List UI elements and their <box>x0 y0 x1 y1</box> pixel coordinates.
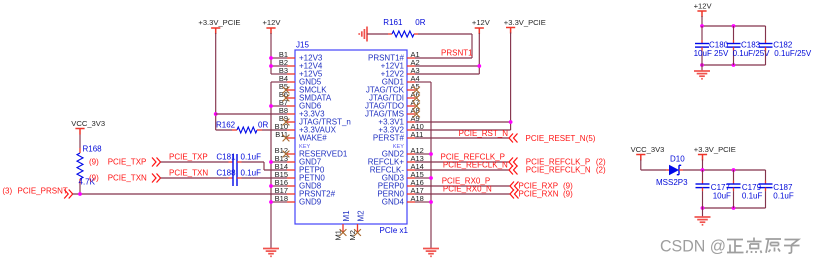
harness port (9) PCIE_TXN <box>89 174 161 183</box>
svg-text:PRSNT1: PRSNT1 <box>441 49 473 58</box>
wire A14 REFCLK- out <box>415 169 509 171</box>
resistor R168 4.7K <box>77 135 102 195</box>
svg-text:PCIe x1: PCIe x1 <box>380 226 409 235</box>
svg-text:PCIE_REFCLK_N: PCIE_REFCLK_N <box>526 166 591 175</box>
diode D10 MSS2P3 <box>656 154 688 187</box>
svg-text:PCIE_TXP: PCIE_TXP <box>108 158 147 167</box>
net label PCIE_TXP <box>169 152 208 161</box>
pin M2 <box>348 210 366 241</box>
svg-text:R168: R168 <box>83 145 103 154</box>
power port +12V (top right) <box>694 2 713 18</box>
wire +12V rail to caps <box>702 16 766 65</box>
pin B16 GND8 <box>275 178 322 191</box>
net label PRSNT1 <box>441 49 473 58</box>
pin A9 +3.3V1 <box>378 114 419 127</box>
svg-text:(2): (2) <box>596 166 606 175</box>
svg-text:0R: 0R <box>258 120 268 129</box>
svg-text:VCC_3V3: VCC_3V3 <box>71 119 105 128</box>
pin A5 JTAG/TCK <box>366 82 420 95</box>
ground (below A-side) <box>423 249 439 257</box>
svg-text:WAKE#: WAKE# <box>299 134 327 143</box>
svg-text:PCIE_TXN: PCIE_TXN <box>108 174 147 183</box>
pin A15 GND3 <box>382 170 424 183</box>
pin B15 PETN0 <box>275 170 326 183</box>
svg-text:0.1uF/25V: 0.1uF/25V <box>733 49 771 58</box>
pin B14 PETP0 <box>275 162 325 175</box>
junction GND/B16 <box>269 184 273 188</box>
svg-text:(9): (9) <box>563 190 573 199</box>
wire PCIE_PRSNT to B17 <box>73 193 287 195</box>
pin B18 GND9 <box>275 194 322 207</box>
connector J15 type label PCIe x1 <box>380 226 409 235</box>
svg-text:(9): (9) <box>89 174 99 183</box>
svg-text:C188: C188 <box>216 168 236 177</box>
pin B11 WAKE# <box>275 130 327 143</box>
pin A14 REFCLK- <box>370 162 424 175</box>
svg-text:C181: C181 <box>216 152 236 161</box>
svg-text:PCIE_TXN: PCIE_TXN <box>169 168 208 177</box>
svg-text:(3): (3) <box>2 187 12 196</box>
svg-text:0.1uF/25V: 0.1uF/25V <box>774 49 812 58</box>
pin A16 PERP0 <box>378 178 424 191</box>
svg-text:+12V: +12V <box>472 18 491 27</box>
wire +12V to A2,A3 <box>415 33 479 74</box>
svg-text:PCIE_RESET_N: PCIE_RESET_N <box>526 134 586 143</box>
power port +3.3V_PCIE (top left) <box>198 18 240 34</box>
svg-text:CSDN @: CSDN @ <box>660 237 726 256</box>
pin B4 GND5 <box>279 74 322 87</box>
svg-text:MSS2P3: MSS2P3 <box>656 178 688 187</box>
harness port (9) PCIE_TXP <box>89 158 161 167</box>
resistor R162 0R <box>216 120 287 133</box>
harness port (3) PCIE_PRSNT <box>2 187 72 199</box>
pin A4 GND1 <box>382 74 420 87</box>
harness port PCIE_RXN (9) <box>510 190 573 199</box>
junction +12V/A2 <box>477 64 481 68</box>
svg-text:KEY: KEY <box>393 144 404 150</box>
svg-text:+12V: +12V <box>263 18 282 27</box>
pin B12 RESERVED1 <box>275 146 348 159</box>
svg-text:KEY: KEY <box>299 144 310 150</box>
net label PCIE_RX0_P <box>442 176 490 185</box>
KEY row <box>299 144 404 150</box>
harness port PCIE_REFCLK_N (2) <box>509 166 606 175</box>
net label PCIE_REFCLK_N <box>443 161 508 170</box>
pin A10 +3.3V2 <box>378 122 423 135</box>
svg-text:R162: R162 <box>216 120 236 129</box>
wire A11 PERST# out <box>415 137 509 139</box>
junction +12V/B2 <box>269 64 273 68</box>
wire A16 PERP0 out <box>415 185 510 187</box>
junction GND/A12 <box>429 152 433 156</box>
no-connect X left pin row y=138 <box>283 135 290 142</box>
pin A1 PRSNT1# <box>368 50 420 63</box>
svg-text:VCC_3V3: VCC_3V3 <box>631 145 665 154</box>
power port +3.3V_PCIE (bottom right) <box>694 145 736 161</box>
connector J15 body <box>295 41 407 225</box>
watermark hanzi 正点原子 (drawn strokes) <box>727 238 800 254</box>
svg-text:0.1uF: 0.1uF <box>241 168 262 177</box>
svg-text:10uF: 10uF <box>713 192 731 201</box>
wire +3.3V_PCIE to A9,A10 <box>415 33 511 131</box>
junction rail/C179 <box>732 168 736 172</box>
watermark CSDN @ <box>660 237 726 256</box>
wire +3.3V3 to B8 <box>216 113 287 115</box>
net label PCIE_REFCLK_P <box>441 152 505 161</box>
harness port PCIE_RESET_N (5) <box>509 134 596 143</box>
svg-text:PCIE_PRSNT: PCIE_PRSNT <box>18 187 68 196</box>
svg-text:J15: J15 <box>296 41 309 50</box>
wire VCC_3V3 to D10 anode <box>641 160 666 171</box>
net label PCIE_RX0_N <box>443 184 492 193</box>
harness port PCIE_RXP (9) <box>510 182 573 191</box>
junction bottom rail C180 <box>700 63 704 67</box>
svg-text:PCIE_TXP: PCIE_TXP <box>169 152 208 161</box>
junction rail/C177 <box>701 168 705 172</box>
capacitor C181 0.1uF <box>161 152 288 170</box>
pin B13 GND7 <box>275 154 322 167</box>
svg-text:0.1uF: 0.1uF <box>742 192 763 201</box>
no-connect X right pin row y=114 <box>413 111 420 118</box>
svg-text:PERST#: PERST# <box>373 134 405 143</box>
power port +12V (top left) <box>263 18 282 34</box>
wire A13 REFCLK+ out <box>415 161 509 163</box>
junction GND/B13 <box>269 160 273 164</box>
pin A8 JTAG/TMS <box>365 106 420 119</box>
pin B10 +3.3VAUX <box>275 122 337 135</box>
svg-text:PCIE_RX0_N: PCIE_RX0_N <box>443 184 492 193</box>
junction R168/PRSNT wire <box>78 192 82 196</box>
pin A7 JTAG/TDO <box>365 98 420 111</box>
capacitor C179 0.1uF <box>727 170 763 208</box>
junction top rail C183 <box>732 24 736 28</box>
no-connect X on M2 <box>354 229 361 236</box>
svg-text:PCIE_RXN: PCIE_RXN <box>519 190 559 199</box>
svg-text:GND4: GND4 <box>382 198 405 207</box>
svg-text:+3.3V_PCIE: +3.3V_PCIE <box>198 18 240 27</box>
svg-text:0R: 0R <box>415 18 425 27</box>
capacitor C180 10uF 25V <box>694 26 729 65</box>
svg-text:M1: M1 <box>334 230 343 240</box>
svg-text:GND9: GND9 <box>299 198 322 207</box>
net label PCIE_RST_N <box>459 129 509 138</box>
capacitor C177 10uF <box>696 170 732 208</box>
pin A2 +12V1 <box>381 58 420 71</box>
pin B6 SMDATA <box>279 90 332 103</box>
wire +3.3V_PCIE rail down to R162 <box>215 33 217 130</box>
junction +3.3V_PCIE / B8 <box>214 112 218 116</box>
no-connect X left pin row y=154 <box>283 151 290 158</box>
no-connect X right pin row y=106 <box>413 103 420 110</box>
junction bottom/C179 <box>732 206 736 210</box>
pin B3 +12V5 <box>279 66 323 79</box>
pin B9 JTAG/TRST_n <box>279 114 351 127</box>
junction GND/B18 <box>269 200 273 204</box>
svg-text:+3.3V_PCIE: +3.3V_PCIE <box>694 145 736 154</box>
pin B7 GND6 <box>279 98 322 111</box>
harness port PCIE_REFCLK_P (2) <box>509 158 606 167</box>
pin A12 GND2 <box>382 146 424 159</box>
wire R161 to A1 PRSNT1# <box>415 34 472 58</box>
power port VCC_3V3 (left) <box>71 119 105 135</box>
pin A3 +12V2 <box>381 66 420 79</box>
junction GND/A18 <box>429 200 433 204</box>
pin M1 <box>334 210 352 241</box>
svg-text:+12V: +12V <box>694 2 713 11</box>
svg-text:D10: D10 <box>670 154 685 163</box>
no-connect X on M1 <box>340 229 347 236</box>
junction bottom rail C183 <box>732 63 736 67</box>
power port +12V (above A2/A3) <box>472 18 491 34</box>
wire +12V down to B1-B3 <box>271 33 287 74</box>
svg-text:(9): (9) <box>89 158 99 167</box>
svg-text:M1: M1 <box>342 210 351 222</box>
pin B1 +12V3 <box>279 50 323 63</box>
svg-text:R161: R161 <box>383 18 403 27</box>
no-connect X left pin row y=122 <box>283 119 290 126</box>
pin A13 REFCLK+ <box>368 154 424 167</box>
svg-text:0.1uF: 0.1uF <box>241 152 262 161</box>
svg-text:PCIE_REFCLK_N: PCIE_REFCLK_N <box>443 161 508 170</box>
wire +3.3V_PCIE stem <box>702 160 704 171</box>
wire A17 PERN0 out <box>415 193 510 195</box>
wire D10 cathode to +3.3V_PCIE rail <box>683 170 766 208</box>
resistor R161 0R <box>367 18 426 37</box>
net label PCIE_TXN <box>169 168 208 177</box>
svg-text:PCIE_RST_N: PCIE_RST_N <box>459 129 509 138</box>
pin B5 SMCLK <box>279 82 327 95</box>
svg-text:M2: M2 <box>357 210 366 222</box>
ground (D10 block) <box>695 208 711 225</box>
junction GND/A15 <box>429 176 433 180</box>
junction top rail C180 <box>700 24 704 28</box>
ground (rotated, at R161) <box>359 27 367 42</box>
pin B2 +12V4 <box>279 58 323 71</box>
svg-text:+3.3V_PCIE: +3.3V_PCIE <box>504 18 546 27</box>
junction +3.3V/A9 <box>509 120 513 124</box>
ground (below B-side) <box>263 249 279 257</box>
svg-text:C187: C187 <box>773 183 793 192</box>
no-connect X left pin row y=98 <box>283 95 290 102</box>
junction GND/B7 <box>269 104 273 108</box>
pin A11 PERST# <box>373 130 423 143</box>
pin B17 PRSNT2# <box>275 186 336 199</box>
svg-text:0.1uF: 0.1uF <box>773 192 794 201</box>
svg-text:10uF 25V: 10uF 25V <box>694 49 729 58</box>
ground (cap bank) <box>694 65 710 79</box>
pin A6 JTAG/TDI <box>369 90 420 103</box>
pin B8 +3.3V3 <box>279 106 325 119</box>
svg-text:M2: M2 <box>348 230 357 240</box>
capacitor C187 0.1uF <box>759 170 794 208</box>
capacitor C188 0.1uF <box>161 168 288 186</box>
junction +12V/B1 <box>269 56 273 60</box>
wire GND chain B4-B7-B13-B16-B18 down to ground <box>271 82 287 248</box>
no-connect X right pin row y=98 <box>413 95 420 102</box>
power port +3.3V_PCIE (above A9/A10) <box>504 18 546 34</box>
pin A18 GND4 <box>382 194 424 207</box>
wire GND chain A4-A12-A15-A18 down to ground <box>415 82 431 248</box>
pin A17 PERN0 <box>377 186 424 199</box>
svg-text:(5): (5) <box>586 134 596 143</box>
no-connect X left pin row y=90 <box>283 87 290 94</box>
junction bottom/C177 <box>701 206 705 210</box>
capacitor C182 0.1uF/25V <box>759 26 812 65</box>
power port VCC_3V3 (bottom right) <box>631 145 665 161</box>
capacitor C183 0.1uF/25V <box>727 26 771 65</box>
no-connect X right pin row y=90 <box>413 87 420 94</box>
